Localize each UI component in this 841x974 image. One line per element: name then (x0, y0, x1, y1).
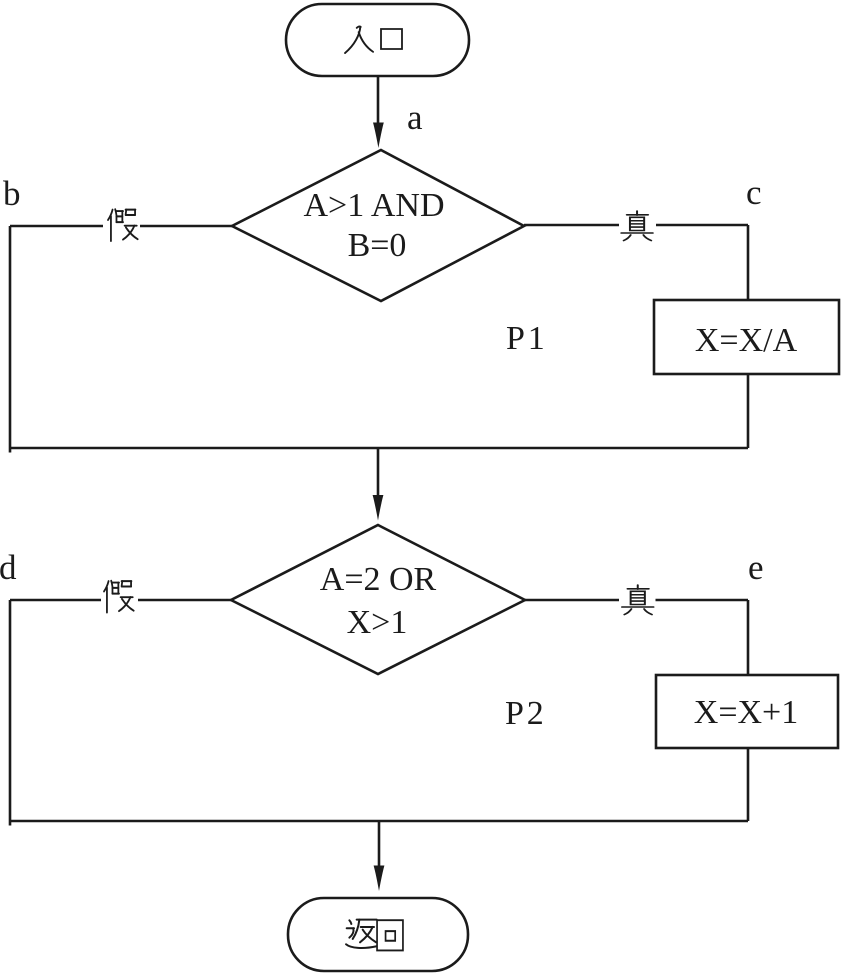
wire: left rail b vertical (9, 226, 12, 448)
svg-text:b: b (3, 174, 21, 213)
terminal: return stadium 返回 (288, 898, 468, 971)
label: process 2 text X=X+1 (694, 694, 798, 731)
wire: false branch b horizontal left (diamond1 to left rail) (10, 225, 232, 228)
wire: right rail e down to process box P2 (747, 600, 750, 675)
label: decision 2 condition text A=2 OR / X>1 (320, 561, 437, 641)
terminal: entry stadium 入口 (286, 4, 469, 76)
svg-text:X>1: X>1 (347, 604, 408, 641)
wire: merge line 1 (10, 448, 748, 453)
wire: arrow a from entry to decision P1 (373, 76, 384, 148)
label: 假 (false) branch 2 (101, 577, 138, 617)
label: b (3, 174, 21, 213)
svg-text:A=2 OR: A=2 OR (320, 561, 437, 598)
label: P1 (506, 320, 545, 357)
label: a (407, 98, 423, 137)
svg-text:d: d (0, 548, 17, 587)
wire: arrow from merge 1 down to decision P2 (373, 448, 384, 521)
label: 入口 (entry) (345, 26, 402, 53)
svg-text:X=X/A: X=X/A (695, 322, 798, 359)
wire: true branch e horizontal right (diamond2 to right rail) (525, 599, 748, 602)
label: process 1 text X=X/A (695, 322, 798, 359)
label: P2 (505, 695, 544, 732)
svg-text:B=0: B=0 (348, 227, 407, 264)
process box P1: X=X/A (654, 300, 839, 374)
svg-text:A>1 AND: A>1 AND (303, 187, 444, 224)
process box P2: X=X+1 (656, 675, 838, 748)
decision P2 diamond A=2 OR X>1 (231, 525, 525, 674)
label: d (0, 548, 17, 587)
label: 真 (true) branch 2 (619, 579, 656, 619)
label: 返回 (return) (346, 920, 403, 951)
svg-text:X=X+1: X=X+1 (694, 694, 798, 731)
wire: true branch c horizontal right (diamond1 to right rail) (524, 224, 748, 227)
svg-text:e: e (748, 548, 764, 587)
svg-text:P 2: P 2 (505, 695, 544, 732)
wire: process P2 out down to merge line 2 (747, 748, 750, 821)
svg-text:P 1: P 1 (506, 320, 545, 357)
label: e (748, 548, 764, 587)
wire: left rail d vertical (9, 600, 12, 821)
label: 真 (true) branch 1 (619, 205, 656, 245)
label: 假 (false) branch 1 (103, 205, 140, 245)
wire: false branch d horizontal left (diamond2 to left rail) (10, 599, 231, 602)
wire: merge line 2 (10, 821, 748, 826)
label: c (746, 173, 762, 212)
wire: process P1 out down to merge line 1 (747, 374, 750, 448)
svg-text:c: c (746, 173, 762, 212)
decision P1 diamond A>1 AND B=0 (232, 150, 524, 301)
svg-text:a: a (407, 98, 423, 137)
wire: right rail c down to process box P1 (747, 225, 750, 300)
label: decision 1 condition text A>1 AND / B=0 (303, 187, 444, 264)
wire: arrow from merge 2 down to return terminal (374, 821, 385, 891)
